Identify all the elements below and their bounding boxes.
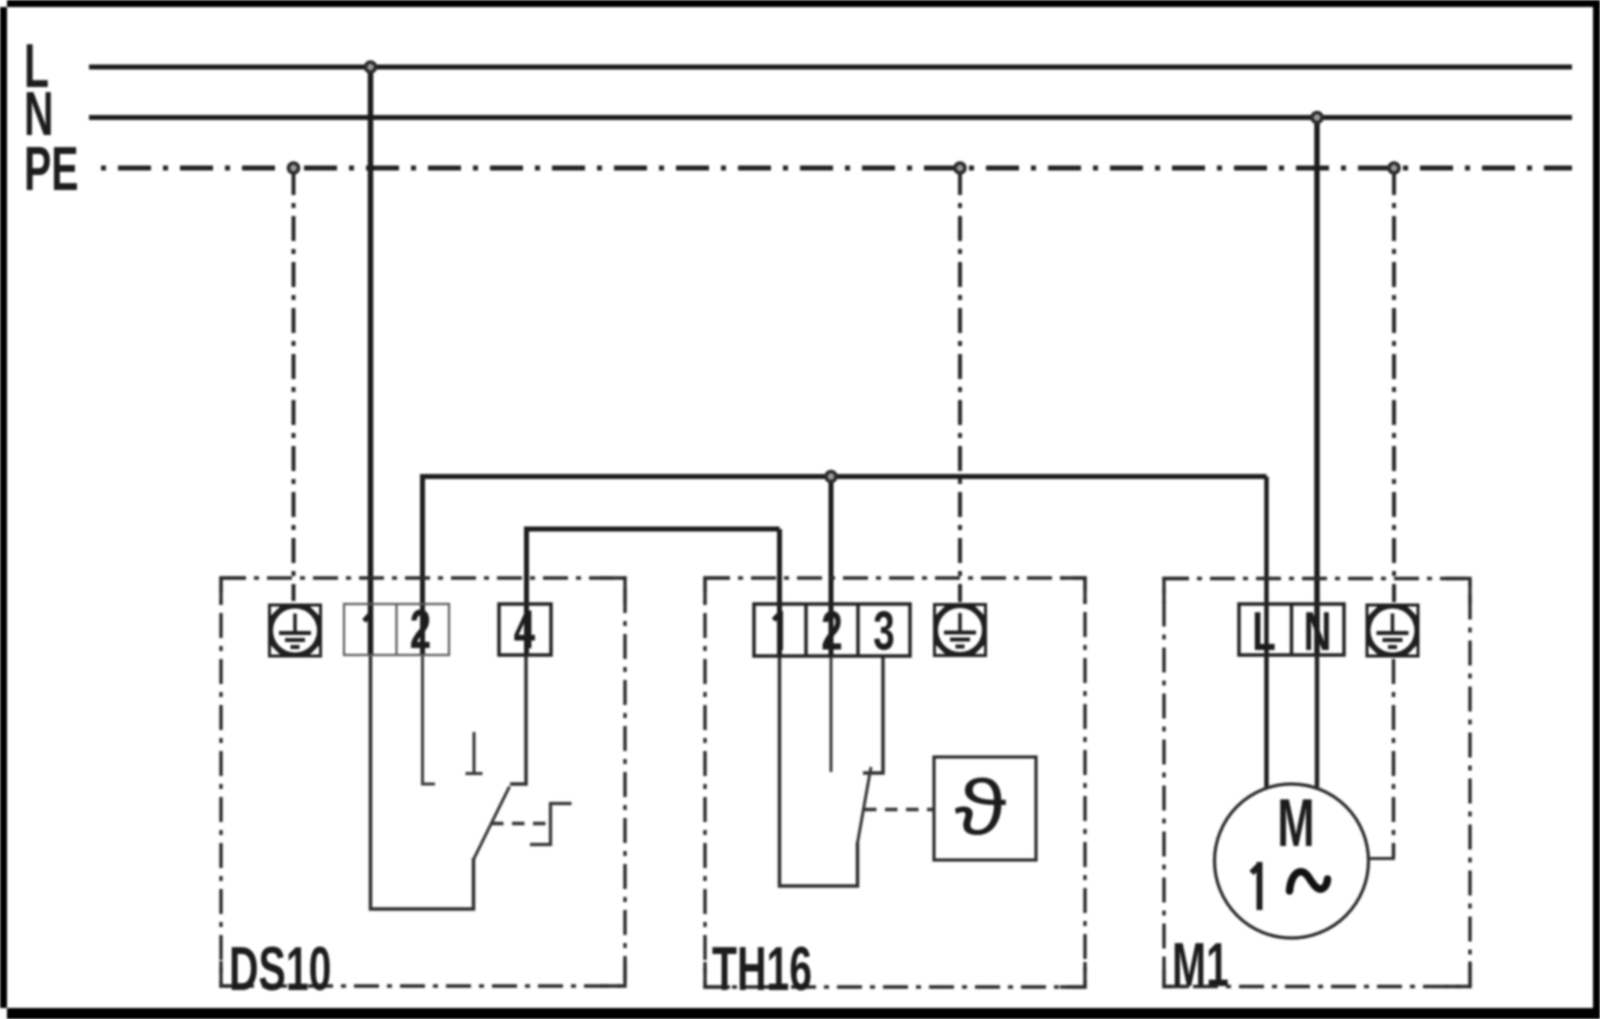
enclosure TH16	[705, 578, 1085, 987]
svg-text:TH16: TH16	[712, 935, 812, 1005]
wire L rail	[89, 65, 1572, 70]
wire PE rail	[101, 166, 1572, 171]
mechanical link dashed TH16	[864, 808, 933, 812]
wire N drop to M1 terminal N	[1314, 118, 1320, 657]
motor circle M1	[1215, 784, 1369, 938]
terminal divider M1	[1290, 604, 1294, 655]
ground terminal M1	[1367, 605, 1418, 656]
wire TH16 terminal 3 to switch contact	[863, 656, 883, 773]
wire PE drop to TH16 ground	[958, 170, 962, 602]
svg-text:DS10: DS10	[229, 935, 331, 1005]
terminal strip TH16 1|2|3	[754, 604, 910, 656]
terminal box DS10 4	[499, 604, 551, 655]
wire link DS10 terminal 2 to M1 terminal L	[423, 474, 1267, 477]
wire DS10 terminal 1 to switch pivot	[371, 654, 474, 909]
latch step symbol DS10	[530, 804, 572, 845]
terminal strip M1 L|N	[1239, 604, 1344, 655]
wire motor case link	[1367, 857, 1395, 860]
wire M1 N terminal to motor	[1315, 655, 1320, 787]
wire drop into TH16 terminal 1	[777, 529, 782, 656]
wire motor case to ground dash-dot	[1392, 659, 1396, 857]
terminal divider TH16 b	[856, 604, 860, 656]
motor label 1	[1252, 862, 1260, 910]
terminal divider TH16 a	[804, 604, 808, 656]
wire DS10 terminal 2 to switch contact	[423, 656, 436, 784]
junction on link wire above TH16	[826, 472, 836, 482]
switch arm DS10	[474, 787, 510, 860]
wire drop junction to TH16 terminal 2	[829, 477, 834, 657]
thermostat box TH16	[934, 757, 1036, 860]
wire N rail	[89, 115, 1572, 120]
enclosure M1	[1164, 579, 1470, 987]
wire DS10 terminal 4 to switch contact	[510, 656, 526, 784]
ground terminal TH16	[935, 605, 986, 656]
svg-text:N: N	[1304, 601, 1332, 662]
svg-text:PE: PE	[24, 135, 79, 205]
wire L drop to DS10 terminal 1	[368, 67, 374, 656]
wire drop into DS10 terminal 2	[420, 474, 425, 656]
junction on PE rail at DS10	[289, 163, 299, 173]
wire link DS10 terminal 4 to TH16 terminal 1	[527, 529, 780, 531]
wire drop into DS10 terminal 4	[524, 529, 529, 656]
junction on PE rail at TH16	[955, 163, 965, 173]
junction on N rail	[1312, 113, 1322, 123]
mechanical link dashed DS10	[491, 822, 551, 826]
wire drop into M1 terminal L	[1264, 477, 1269, 788]
enclosure DS10	[221, 578, 625, 986]
svg-text:L: L	[1252, 601, 1276, 662]
terminal label 1 DS10	[364, 612, 371, 648]
junction on PE rail at M1	[1389, 163, 1399, 173]
junction on L rail	[366, 62, 376, 72]
enclosure corner marks DS10	[221, 578, 625, 986]
switch arm TH16	[858, 767, 872, 843]
wire TH16 terminal 1 to switch pivot	[780, 656, 858, 886]
svg-text:4: 4	[514, 599, 536, 660]
ground terminal DS10	[270, 605, 321, 656]
svg-text:2: 2	[821, 601, 842, 662]
motor tilde	[1290, 872, 1328, 891]
terminal divider DS10	[395, 604, 397, 655]
svg-text:3: 3	[873, 601, 894, 662]
svg-text:M: M	[1277, 786, 1314, 862]
svg-text:M1: M1	[1172, 931, 1229, 1001]
enclosure corner marks M1	[1164, 579, 1470, 987]
wire TH16 terminal 2 stub	[830, 656, 833, 772]
terminal label 1 TH16	[774, 611, 781, 650]
svg-text:2: 2	[410, 599, 431, 660]
wire PE drop to DS10 ground	[292, 170, 296, 601]
terminal strip DS10 1|2	[344, 604, 449, 655]
svg-text:ϑ: ϑ	[954, 764, 1006, 851]
enclosure corner marks TH16	[705, 578, 1085, 987]
wire PE drop to M1 ground	[1392, 170, 1396, 602]
actuator mark DS10	[466, 732, 483, 774]
